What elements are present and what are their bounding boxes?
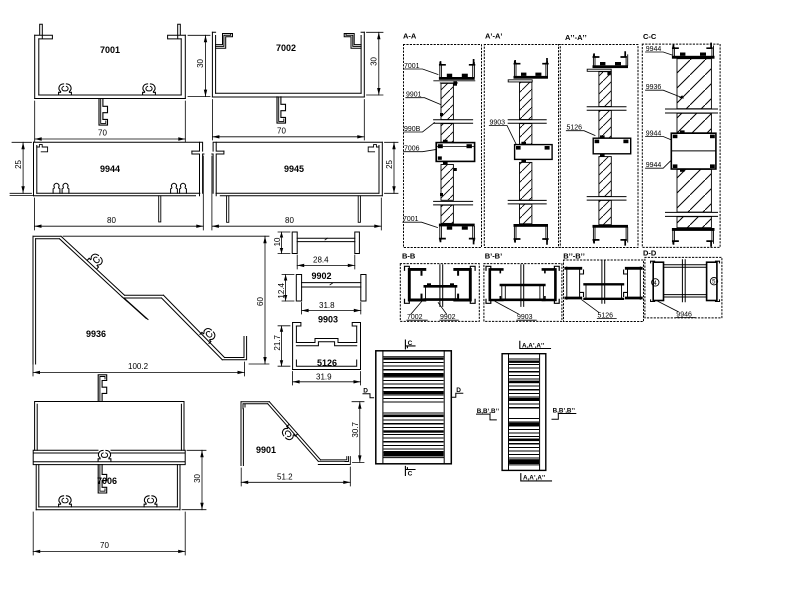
9945 left fin xyxy=(213,142,224,151)
B''-B'' glass lines xyxy=(602,261,605,304)
B''-B'' right channel xyxy=(626,268,641,298)
A''-A'' mid bar xyxy=(593,135,631,156)
svg-text:31.9: 31.9 xyxy=(316,373,332,382)
svg-text:7002: 7002 xyxy=(276,43,296,53)
profile 7001 xyxy=(35,24,186,125)
svg-text:5126: 5126 xyxy=(317,358,337,368)
9945 drop leg left xyxy=(227,196,229,223)
svg-text:25: 25 xyxy=(14,159,23,168)
dimension 70 of 7006 xyxy=(33,512,185,555)
A'-A' glass panes xyxy=(520,82,532,119)
B'-B' glass lines xyxy=(521,265,524,307)
dimension 70 of 7002 xyxy=(212,100,364,141)
9945 drop leg right xyxy=(358,196,360,223)
profile 9901 xyxy=(241,402,350,466)
C-C mid bars 9944 pair xyxy=(671,130,716,171)
profile 9945 xyxy=(212,142,382,222)
dimension 30.7 of 9901 xyxy=(351,402,364,463)
7001 top-right hook xyxy=(168,24,186,39)
dimension 31.9 of 5126 xyxy=(293,372,361,386)
D-D rails xyxy=(664,265,707,297)
svg-text:31.8: 31.8 xyxy=(319,301,335,310)
B-B glass lines xyxy=(440,265,443,307)
svg-text:D-D: D-D xyxy=(643,249,657,258)
profile 5126 xyxy=(293,323,361,370)
7001 C-clip right xyxy=(143,84,156,95)
cut mark D left xyxy=(363,388,374,398)
A-A seal lines lower xyxy=(434,201,473,205)
svg-text:9936: 9936 xyxy=(86,329,106,339)
svg-text:12.4: 12.4 xyxy=(277,282,286,298)
svg-text:100.2: 100.2 xyxy=(128,362,149,371)
D-D glass lines xyxy=(682,260,685,302)
section A'-A' xyxy=(484,32,560,248)
svg-text:Aʼ-Aʼ: Aʼ-Aʼ xyxy=(485,32,503,41)
A-A glass pane upper xyxy=(440,83,453,119)
svg-text:80: 80 xyxy=(107,216,116,225)
svg-text:10: 10 xyxy=(273,237,282,246)
profile 9936 xyxy=(33,236,247,364)
svg-text:30.7: 30.7 xyxy=(351,421,360,437)
cut mark D right xyxy=(452,387,463,397)
7006 upper box xyxy=(35,402,184,451)
B-B leader 7002 xyxy=(407,301,428,321)
louver slats xyxy=(384,358,444,456)
9936 foot xyxy=(222,337,246,360)
A-A seal lines upper xyxy=(434,120,473,124)
C-C leader 9936 xyxy=(646,84,685,99)
dimension 30 of 7006 xyxy=(182,450,206,509)
svg-text:7006: 7006 xyxy=(97,476,117,486)
cut mark A,A',A'' bottom xyxy=(521,474,552,482)
9936 clip on upper diagonal xyxy=(87,252,104,269)
9944 double-hat clip right xyxy=(171,183,178,193)
svg-text:60: 60 xyxy=(256,297,265,306)
A'-A' leader 9903 xyxy=(489,119,516,144)
cut mark C bottom xyxy=(405,466,415,477)
dimension 51.2 of 9901 xyxy=(241,467,350,486)
D-D left mullion 9944 xyxy=(653,262,663,300)
B'-B' leader 9903 xyxy=(495,301,536,321)
dimension 25 of 9945 xyxy=(385,142,399,193)
7006 omega clip in bar xyxy=(98,450,111,461)
B-B right channel xyxy=(455,269,471,300)
A-A bottom channel 7001 xyxy=(439,224,475,244)
svg-text:C: C xyxy=(408,470,413,477)
B'-B' left channel xyxy=(490,269,503,300)
svg-text:Bʼʼ-Bʼʼ: Bʼʼ-Bʼʼ xyxy=(563,252,585,261)
9936 step xyxy=(124,295,164,298)
cut mark C top xyxy=(405,340,415,349)
dimension 10 of 9902 xyxy=(273,232,290,254)
svg-text:A-A: A-A xyxy=(403,32,417,41)
C-C top channel 9944 xyxy=(672,44,715,59)
C-C leader 9944 mid xyxy=(646,130,672,140)
7006 top E-clip xyxy=(98,375,107,402)
7001 C-clip left xyxy=(59,84,72,95)
svg-text:C: C xyxy=(408,340,413,347)
svg-text:70: 70 xyxy=(100,541,109,550)
A''-A'' glass panes lower xyxy=(599,157,611,197)
7006 lower box xyxy=(36,465,180,510)
A-A leader 7006 xyxy=(404,146,436,153)
A''-A'' bottom channel xyxy=(593,225,629,245)
9936 lower diagonal xyxy=(162,295,225,360)
dimension 30 of 7001 xyxy=(188,35,210,96)
7001 E-clip below xyxy=(99,99,108,125)
svg-text:30: 30 xyxy=(193,473,202,482)
B''-B'' mid bar xyxy=(585,284,624,299)
D-D right mullion xyxy=(707,262,717,300)
svg-text:9945: 9945 xyxy=(284,164,304,174)
7001 top-left hook xyxy=(35,24,53,39)
B-B left channel 7002 xyxy=(409,269,425,300)
svg-text:Bʼ-Bʼ: Bʼ-Bʼ xyxy=(485,252,503,261)
A'-A' glass panes lower xyxy=(520,162,532,200)
A-A glass pane 4 xyxy=(441,205,453,223)
9901 diagonal xyxy=(268,402,321,462)
svg-text:9902: 9902 xyxy=(312,271,332,281)
A-A mid bar 7006 xyxy=(436,140,474,164)
section B'-B' xyxy=(484,252,562,322)
section C-C xyxy=(642,32,720,247)
C-C bottom channel xyxy=(672,228,715,246)
9944 right fin xyxy=(192,142,203,151)
C-C leader 9944 low xyxy=(646,160,672,169)
louver elevation right xyxy=(502,354,546,471)
dimension 12.4 of 9903 xyxy=(277,275,294,302)
7002 top-left step hook xyxy=(216,34,233,49)
A'-A' top channel xyxy=(508,59,548,82)
svg-text:80: 80 xyxy=(285,216,294,225)
svg-text:C-C: C-C xyxy=(643,32,657,41)
A''-A'' glass panes xyxy=(599,72,611,107)
A-A glass pane 2 xyxy=(441,124,453,143)
profile 7002 xyxy=(212,32,364,123)
svg-text:70: 70 xyxy=(277,126,286,135)
9944 top-left hook xyxy=(37,145,48,152)
B''-B'' leader 5126 xyxy=(582,300,617,320)
A-A leader 9901 xyxy=(406,92,441,105)
7006 omega clips bottom xyxy=(59,496,72,507)
D-D circled 5 xyxy=(710,278,717,286)
9936 upper diagonal xyxy=(60,236,125,297)
B'-B' right channel xyxy=(543,269,556,300)
svg-text:Aʼʼ-Aʼʼ: Aʼʼ-Aʼʼ xyxy=(565,33,587,42)
C-C leader 9944 top xyxy=(646,46,673,55)
9944 double-hat clip left xyxy=(53,183,60,193)
A'-A' mid bar xyxy=(515,142,553,162)
A-A leader 9902 xyxy=(404,123,435,133)
D-D circled 4 xyxy=(652,279,659,287)
A'-A' bottom channel xyxy=(514,224,549,244)
dimension 30 of 7002 xyxy=(367,32,384,95)
svg-text:9903: 9903 xyxy=(318,315,338,325)
7002 E-clip below xyxy=(277,97,286,123)
9901 foot xyxy=(318,457,350,465)
D-D leader 9946 xyxy=(658,301,695,318)
dimension 70 of 7001 xyxy=(35,101,186,142)
A-A glass pane 3 xyxy=(440,165,457,201)
section A-A xyxy=(403,32,482,248)
svg-text:21.7: 21.7 xyxy=(273,334,282,350)
A-A leader 7001 top xyxy=(404,63,438,75)
dimension 25 of 9944 xyxy=(10,142,33,195)
svg-text:9944: 9944 xyxy=(100,164,120,174)
9936 clip on lower diagonal xyxy=(200,326,217,343)
A''-A'' leader 5126 xyxy=(566,125,595,136)
svg-text:9901: 9901 xyxy=(256,445,276,455)
svg-text:70: 70 xyxy=(98,129,107,138)
7006 middle bar xyxy=(33,450,185,464)
section A''-A'' xyxy=(559,33,639,248)
dimension 28.4 of 9902 xyxy=(297,255,355,269)
7002 top-right step hook xyxy=(344,34,361,49)
section D-D xyxy=(643,249,722,319)
svg-text:28.4: 28.4 xyxy=(313,256,329,265)
svg-text:A,Aʼ,Aʼʼ: A,Aʼ,Aʼʼ xyxy=(522,342,545,349)
A-A top channel 7001 xyxy=(434,60,475,86)
dimension 21.7 of 5126 xyxy=(273,326,290,366)
B-B leader 9902 xyxy=(438,303,458,321)
A''-A'' top channel xyxy=(587,52,628,75)
dimension 31.8 of 9903 xyxy=(302,301,361,314)
svg-text:30: 30 xyxy=(370,56,379,65)
profile 9903 xyxy=(296,275,366,302)
B-B mid box 9902 xyxy=(425,286,456,299)
dimension 60 of 9936 xyxy=(63,236,269,364)
profile 9944 xyxy=(34,142,204,222)
9936 stub diagonal xyxy=(122,297,148,320)
dimension 80 of 9944 xyxy=(35,156,204,230)
7006 lower E-clip xyxy=(98,465,107,493)
A-A leader 7001 bottom xyxy=(403,216,438,228)
9901 clip on diagonal xyxy=(280,425,297,442)
section B-B xyxy=(400,252,479,322)
louver elevation left xyxy=(376,351,452,464)
dimension 100.2 of 9936 xyxy=(33,362,245,376)
cut mark A,A',A'' top xyxy=(520,341,551,349)
dimension 80 of 9945 xyxy=(212,156,381,230)
cut mark B,B',B'' right xyxy=(552,407,576,419)
svg-text:51.2: 51.2 xyxy=(277,473,293,482)
svg-text:B-B: B-B xyxy=(402,252,416,261)
C-C louver glazing lower xyxy=(666,169,718,227)
9944 drop leg xyxy=(159,196,161,222)
svg-text:7001: 7001 xyxy=(100,45,120,55)
profile 9902 xyxy=(292,232,359,254)
section B''-B'' xyxy=(563,252,643,322)
profile 7006 xyxy=(33,375,185,510)
B''-B'' left channel 5126 side xyxy=(566,268,581,298)
cut mark B,B',B'' left xyxy=(477,408,500,420)
9945 top-right hook xyxy=(368,145,379,152)
svg-text:A,Aʼ,Aʼʼ: A,Aʼ,Aʼʼ xyxy=(523,475,546,482)
C-C louver glazing upper xyxy=(666,59,718,133)
B'-B' mid box 9903 xyxy=(501,285,544,300)
svg-text:30: 30 xyxy=(196,58,205,67)
svg-text:25: 25 xyxy=(385,159,394,168)
